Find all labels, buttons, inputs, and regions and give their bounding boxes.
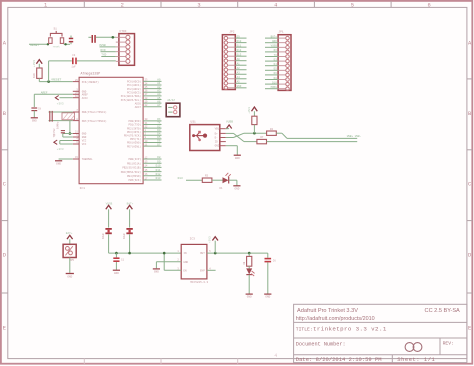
svg-text:ID: ID <box>215 141 219 144</box>
svg-text:PB3(MOSI/OC2): PB3(MOSI/OC2) <box>121 170 142 174</box>
svg-text:BAT+: BAT+ <box>66 232 73 235</box>
svg-text:+3V3: +3V3 <box>209 236 212 243</box>
svg-text:OUT: OUT <box>200 252 205 255</box>
junction out led <box>248 252 251 255</box>
svg-text:D1: D1 <box>220 187 224 190</box>
svg-text:ATmega328P: ATmega328P <box>81 72 101 76</box>
svg-text:ADC6: ADC6 <box>135 102 142 105</box>
svg-text:D5: D5 <box>157 136 161 139</box>
wire xtal1 <box>49 111 73 113</box>
ground c6 <box>264 293 271 295</box>
wire xtal2 <box>49 120 73 122</box>
wire led to gnd <box>229 179 237 181</box>
svg-text:PD2(INT0): PD2(INT0) <box>127 126 141 130</box>
svg-text:Date: 8/20/2014 2:10:59 PM: Date: 8/20/2014 2:10:59 PM <box>296 356 382 363</box>
ground aref <box>31 117 38 119</box>
capacitor C8 <box>31 107 37 109</box>
capacitor C10 <box>69 38 73 40</box>
svg-text:D: D <box>468 252 471 258</box>
wire reg byp <box>207 269 216 271</box>
svg-text:RX: RX <box>157 118 161 121</box>
svg-text:D4: D4 <box>274 63 278 66</box>
svg-text:A2: A2 <box>237 67 241 70</box>
svg-text:VUSB: VUSB <box>226 121 233 124</box>
power +3V3 arrow R1 <box>36 60 42 64</box>
power +3V3 arrow out <box>212 237 218 241</box>
svg-text:BYP: BYP <box>200 269 205 272</box>
svg-text:PB5(SCK): PB5(SCK) <box>129 178 142 182</box>
wire vbat to jp5 <box>69 239 71 244</box>
svg-text:THERMAL: THERMAL <box>82 158 93 161</box>
svg-text:Adafruit Pro Trinket 3.3V: Adafruit Pro Trinket 3.3V <box>297 308 358 314</box>
svg-text:TX: TX <box>157 122 161 125</box>
junction d- pullup <box>253 132 256 135</box>
wire c6 gnd <box>267 262 269 293</box>
svg-text:RXD: RXD <box>101 49 106 52</box>
svg-text:A0: A0 <box>237 58 241 61</box>
svg-text:PB4(MISO): PB4(MISO) <box>127 174 141 178</box>
svg-text:D11: D11 <box>156 169 161 172</box>
svg-text:TXD: TXD <box>101 54 106 57</box>
svg-text:PC1(ADC1): PC1(ADC1) <box>127 83 141 87</box>
title block outline <box>294 304 467 362</box>
svg-text:ADC7: ADC7 <box>135 106 142 109</box>
ground led <box>233 185 240 187</box>
svg-text:USB+ USB-: USB+ USB- <box>347 135 362 138</box>
junction out 3v3 <box>214 252 217 255</box>
regulator IC3 box <box>181 244 207 279</box>
wire out cap branch <box>267 253 269 258</box>
capacitor C6 <box>265 258 272 260</box>
svg-text:D-: D- <box>215 137 219 140</box>
wire usb gnd <box>226 145 238 147</box>
wire button to C10 <box>64 43 70 45</box>
svg-text:Sheet: 1/1: Sheet: 1/1 <box>397 356 435 363</box>
connector JP1 pins <box>286 36 290 40</box>
svg-text:VUSB: VUSB <box>106 202 113 205</box>
svg-text:D13: D13 <box>178 177 183 180</box>
svg-text:C: C <box>3 182 6 188</box>
resistor R1 <box>37 68 42 78</box>
svg-text:S1: S1 <box>54 28 58 31</box>
svg-text:/RESET: /RESET <box>51 78 62 82</box>
svg-text:D9: D9 <box>157 160 161 163</box>
svg-text:BAT+: BAT+ <box>127 202 134 205</box>
svg-text:AVCC: AVCC <box>82 97 89 100</box>
svg-text:PD4(T0/XCK): PD4(T0/XCK) <box>124 134 142 138</box>
power VBAT arrow <box>67 235 73 239</box>
wire d- out <box>276 132 282 134</box>
svg-text:PC3(ADC3): PC3(ADC3) <box>127 90 141 94</box>
svg-text:D6: D6 <box>157 140 161 143</box>
svg-text:PD7(AIN1): PD7(AIN1) <box>127 144 141 148</box>
wire C9 to FTDI pin1 <box>96 36 116 38</box>
svg-text:16MHz: 16MHz <box>56 121 59 129</box>
svg-text:D4: D4 <box>157 133 161 136</box>
svg-text:2: 2 <box>121 2 124 8</box>
svg-text:+3V3: +3V3 <box>33 60 36 67</box>
svg-text:+3V3: +3V3 <box>248 107 251 114</box>
svg-text:4: 4 <box>274 2 277 8</box>
wire FTDI pin4 <box>101 51 116 53</box>
junction R1-reset <box>47 80 50 83</box>
svg-text:D10: D10 <box>272 81 277 84</box>
power +3V3 arrow vcc <box>54 140 57 144</box>
wire reset vertical <box>48 61 50 82</box>
wire R8 to led <box>248 266 250 268</box>
svg-text:A7: A7 <box>157 104 161 107</box>
svg-text:A0: A0 <box>157 79 161 82</box>
svg-text:GND: GND <box>183 261 188 264</box>
wire arrow to R1 <box>38 64 40 68</box>
net VUSB arrow <box>227 125 232 129</box>
wire dtr left <box>49 60 72 62</box>
svg-text:C8: C8 <box>38 107 42 110</box>
svg-text:A1: A1 <box>157 82 161 85</box>
power +3V3 arrow R6 <box>252 107 258 111</box>
svg-text:trinketpro 3.3 v2.1: trinketpro 3.3 v2.1 <box>313 325 387 332</box>
svg-text:A3: A3 <box>237 72 241 75</box>
usb U$1 box <box>190 125 220 151</box>
connector JP2 box <box>222 35 235 90</box>
svg-text:RX: RX <box>274 49 278 52</box>
svg-text:E: E <box>468 325 471 331</box>
svg-text:PC4(ADC4/SDA): PC4(ADC4/SDA) <box>121 94 142 98</box>
wire out to R8 <box>248 253 250 256</box>
pushbutton S1 <box>49 38 52 44</box>
svg-text:D5: D5 <box>274 68 278 71</box>
svg-text:GND: GND <box>56 162 61 165</box>
svg-text:GND: GND <box>114 272 119 275</box>
svg-text:E: E <box>3 325 6 331</box>
svg-text:IC1: IC1 <box>80 187 86 190</box>
jumper SJ1 <box>166 103 180 117</box>
connector FTDI box <box>119 34 135 66</box>
svg-text:3: 3 <box>197 2 200 8</box>
svg-text:4: 4 <box>274 353 277 359</box>
svg-text:PD0(RXD): PD0(RXD) <box>129 119 142 123</box>
svg-text:JP2: JP2 <box>229 30 234 33</box>
svg-text:A4: A4 <box>157 93 161 96</box>
svg-text:PD3(INT1): PD3(INT1) <box>127 130 141 134</box>
wire reg gnd <box>156 261 181 263</box>
svg-text:PB6(XTAL1/TOSC1): PB6(XTAL1/TOSC1) <box>82 110 107 114</box>
svg-text:BAT+: BAT+ <box>271 35 278 38</box>
svg-text:10uF: 10uF <box>102 232 105 239</box>
svg-text:D9: D9 <box>237 35 241 38</box>
svg-text:D11: D11 <box>237 44 242 47</box>
wire arrow to R6 <box>253 111 255 116</box>
wire FTDI pin3 <box>100 46 116 48</box>
frame column dividers <box>83 1 85 8</box>
wire aref <box>34 93 73 95</box>
svg-text:VCC: VCC <box>82 143 87 146</box>
ground jp5 <box>66 273 74 275</box>
svg-text:PD6(AIN0): PD6(AIN0) <box>127 141 141 145</box>
svg-text:GND: GND <box>272 40 277 43</box>
svg-text:REV:: REV: <box>443 341 454 347</box>
svg-text:http://adafruit.com/products/2: http://adafruit.com/products/2010 <box>296 316 375 322</box>
svg-text:D: D <box>3 252 6 258</box>
capacitor C9 <box>92 35 94 43</box>
svg-text:1uF: 1uF <box>71 65 76 68</box>
svg-text:A5: A5 <box>237 81 241 84</box>
svg-text:PROG: PROG <box>271 86 278 89</box>
wire reg en <box>164 269 181 271</box>
svg-text:10uF: 10uF <box>123 232 126 239</box>
led D1 <box>223 177 229 183</box>
svg-text:R3: R3 <box>205 174 209 177</box>
frame row dividers <box>1 78 8 80</box>
svg-text:GND: GND <box>67 276 72 279</box>
svg-text:C6: C6 <box>273 260 277 263</box>
wire reset to button <box>29 43 49 45</box>
svg-text:D12: D12 <box>237 49 242 52</box>
wire C9 stub <box>88 36 91 38</box>
svg-text:PC6(/RESET): PC6(/RESET) <box>82 80 100 84</box>
svg-text:A3: A3 <box>157 89 161 92</box>
svg-text:IN: IN <box>183 252 187 255</box>
svg-text:D2: D2 <box>157 125 161 128</box>
svg-text:D10: D10 <box>237 40 242 43</box>
svg-text:VUSB: VUSB <box>271 45 278 48</box>
wire thermal <box>59 158 73 160</box>
svg-text:Document Number:: Document Number: <box>296 341 346 347</box>
svg-text:D3: D3 <box>157 129 161 132</box>
svg-text:5: 5 <box>351 2 354 8</box>
svg-text:A5: A5 <box>157 97 161 100</box>
wire avcc <box>60 97 73 99</box>
wire mcu vcc pins <box>60 140 73 142</box>
svg-text:+3V3: +3V3 <box>57 103 64 106</box>
svg-text:C4: C4 <box>72 54 76 57</box>
svg-text:D8: D8 <box>157 156 161 159</box>
wire d+ out <box>267 141 358 143</box>
wire led2 gnd <box>248 275 250 294</box>
junction rail bat <box>128 252 131 255</box>
svg-text:D7: D7 <box>157 143 161 146</box>
svg-text:PB0(ICP): PB0(ICP) <box>129 157 142 161</box>
capacitor C5 <box>61 130 65 132</box>
wire jp5 to gnd <box>69 258 71 273</box>
svg-text:VUSB: VUSB <box>99 44 106 47</box>
resistor R3 <box>202 178 212 182</box>
svg-text:reset: reset <box>53 46 61 49</box>
svg-text:D10: D10 <box>156 165 161 168</box>
wire d13 <box>186 179 202 181</box>
svg-text:D13: D13 <box>156 177 161 180</box>
wire FTDI pin5 <box>101 56 116 58</box>
svg-text:D8: D8 <box>274 77 278 80</box>
svg-text:GND: GND <box>235 157 240 160</box>
ground c1 <box>113 269 120 271</box>
connector JP1 box <box>278 35 291 91</box>
resistor R7 <box>257 139 267 143</box>
junction reg en <box>163 252 166 255</box>
connector JP2 pins <box>224 36 228 40</box>
resonator Y1 <box>49 111 51 122</box>
svg-text:PB7(XTAL2/TOSC2): PB7(XTAL2/TOSC2) <box>82 119 107 123</box>
title block logo circles <box>405 343 414 352</box>
wire R6 down <box>253 125 255 134</box>
svg-text:R7: R7 <box>260 136 264 139</box>
svg-text:D3: D3 <box>274 58 278 61</box>
ground usb <box>234 154 241 156</box>
svg-text:JP1: JP1 <box>278 30 283 33</box>
wire R1 to reset net <box>38 78 40 81</box>
svg-text:FTDI: FTDI <box>120 30 127 33</box>
ground reg <box>153 268 160 270</box>
svg-text:TX: TX <box>274 54 278 57</box>
svg-text:R8: R8 <box>243 261 246 265</box>
svg-text:C1: C1 <box>121 258 125 261</box>
resistor R4 <box>267 131 277 135</box>
wire dtr right <box>77 60 116 62</box>
svg-text:GND: GND <box>215 145 220 148</box>
svg-text:A2: A2 <box>157 86 161 89</box>
svg-text:D12: D12 <box>156 173 161 176</box>
svg-text:PD5(T1): PD5(T1) <box>130 137 141 141</box>
svg-text:A6: A6 <box>157 100 161 103</box>
svg-text:PC2(ADC2): PC2(ADC2) <box>127 87 141 91</box>
svg-text:GND: GND <box>265 296 270 299</box>
svg-text:U$1: U$1 <box>191 119 196 123</box>
svg-text:PC0(ADC0): PC0(ADC0) <box>127 80 141 84</box>
resistor R6 <box>252 116 257 124</box>
wire resonator gnd <box>69 121 71 134</box>
svg-text:PD1(TXD): PD1(TXD) <box>129 123 142 127</box>
svg-text:GND: GND <box>32 119 37 122</box>
power +3V3 arrow avcc <box>55 96 58 100</box>
svg-text:GND: GND <box>237 85 242 88</box>
junction rail c1 <box>115 252 118 255</box>
resistor R8 <box>247 256 252 266</box>
svg-text:1: 1 <box>44 2 47 8</box>
connector FTDI pins <box>126 35 130 39</box>
svg-text:10K: 10K <box>33 73 36 78</box>
svg-text:PC5(ADC5/SCL): PC5(ADC5/SCL) <box>121 98 142 102</box>
svg-text:6: 6 <box>427 2 430 8</box>
svg-text:GND: GND <box>234 187 239 190</box>
svg-text:GND: GND <box>247 296 252 299</box>
usb U$1 symbol <box>192 134 195 137</box>
wire r3 to led <box>212 179 223 181</box>
ic IC1 box <box>79 77 143 183</box>
led D2 power <box>246 268 252 274</box>
svg-text:+3V3: +3V3 <box>57 148 64 151</box>
wire power rail <box>109 252 182 254</box>
svg-text:C: C <box>468 182 471 188</box>
ground thermal <box>55 160 62 162</box>
junction FTDI pin1 <box>112 36 115 39</box>
svg-text:PB1(OC1A): PB1(OC1A) <box>127 161 141 165</box>
wire mcu gnd pins <box>63 133 73 135</box>
svg-text:PB2(SS/OC1B): PB2(SS/OC1B) <box>122 166 141 170</box>
svg-text:D13: D13 <box>237 53 242 56</box>
svg-text:R4: R4 <box>270 128 274 131</box>
ic IC1 left pins <box>73 81 79 83</box>
junction resonator gnd <box>69 132 72 135</box>
svg-text:A1: A1 <box>237 63 241 66</box>
svg-text:D6: D6 <box>274 72 278 75</box>
svg-text:EN: EN <box>183 269 187 272</box>
svg-text:A4: A4 <box>237 76 241 79</box>
jumper JP5 <box>63 244 76 257</box>
junction reset-button <box>47 43 49 45</box>
svg-text:MIC5225-3.3: MIC5225-3.3 <box>190 281 208 284</box>
wire reg out <box>207 252 268 254</box>
capacitor C4 <box>72 58 74 65</box>
svg-text:GND: GND <box>154 271 159 274</box>
capacitor C1 <box>115 253 117 257</box>
wire usb d- cross <box>226 137 234 139</box>
wire usb d+ cross <box>226 132 234 134</box>
svg-text:IC3: IC3 <box>190 238 195 241</box>
svg-text:TITLE:: TITLE: <box>296 326 313 332</box>
svg-text:A6/A7: A6/A7 <box>167 99 175 102</box>
svg-text:D+: D+ <box>215 132 219 135</box>
ground led2 <box>246 293 253 295</box>
svg-text:CC 2.5 BY-SA: CC 2.5 BY-SA <box>425 308 461 314</box>
junction button-right <box>64 43 66 45</box>
